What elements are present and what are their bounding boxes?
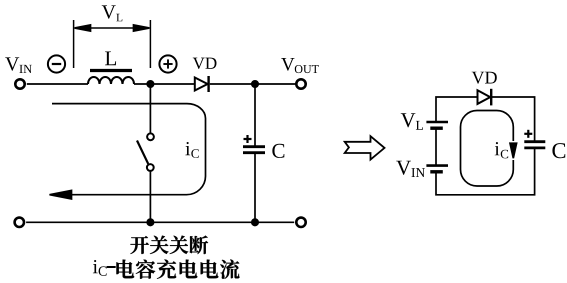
switch S xyxy=(137,133,154,171)
implies arrow xyxy=(345,136,385,159)
label L xyxy=(105,51,116,65)
dimension tick left xyxy=(73,20,75,68)
wire: node A down to switch xyxy=(149,84,151,133)
right circuit frame wire (top with diode gap) xyxy=(436,97,535,141)
capacitor C xyxy=(243,147,265,153)
node A (inductor-switch junction) xyxy=(147,81,153,87)
bottom rail wire xyxy=(26,221,294,223)
dimension arrow V_L (double-headed) xyxy=(75,25,150,31)
current loop i_C (right) xyxy=(461,111,517,187)
battery V_L xyxy=(426,122,448,128)
label + (right capacitor polarity) xyxy=(524,130,532,138)
wire: capacitor to bottom rail xyxy=(254,153,256,223)
wire top left: V_IN to inductor xyxy=(27,83,88,85)
node D (capacitor-bottom junction) xyxy=(252,219,258,225)
label VD (right) xyxy=(472,72,497,84)
dimension tick right xyxy=(149,20,151,68)
capacitor C (right) xyxy=(524,142,545,148)
diode VD (right) xyxy=(478,89,492,106)
current path arrow i_C (left loop) xyxy=(50,104,206,199)
terminal V_IN xyxy=(15,79,24,88)
terminal bottom left xyxy=(15,218,24,227)
label i_C (left) xyxy=(185,142,198,158)
battery V_IN xyxy=(426,166,448,172)
wire: switch to bottom rail xyxy=(149,171,151,222)
label C (right) xyxy=(552,143,565,158)
label V_IN xyxy=(5,57,32,73)
inductor L core bar xyxy=(90,69,132,72)
caption line 2: iC-电容充电电流 xyxy=(93,260,240,279)
label V_OUT xyxy=(281,58,319,73)
label + (capacitor polarity) xyxy=(244,135,252,143)
label VD xyxy=(193,58,217,69)
wire: diode to V_OUT xyxy=(210,83,296,85)
inductor L windings xyxy=(88,77,134,84)
right circuit frame wire (bottom) xyxy=(436,129,535,195)
label i_C (right) xyxy=(495,142,508,158)
polarity plus xyxy=(159,55,176,72)
caption line 1: 开关关断 xyxy=(130,236,208,254)
label C xyxy=(272,144,284,158)
node C (switch-bottom junction) xyxy=(147,219,153,225)
node B (diode-capacitor junction) xyxy=(252,81,258,87)
label V_L (right) xyxy=(401,113,423,129)
diode VD xyxy=(195,76,209,92)
polarity minus xyxy=(48,55,65,72)
label V_IN (right) xyxy=(396,161,425,177)
terminal V_OUT xyxy=(296,79,305,88)
terminal bottom right xyxy=(296,218,305,227)
wire: node B down to capacitor xyxy=(254,84,256,146)
wire: inductor to diode xyxy=(134,83,195,85)
label V_L xyxy=(102,5,123,21)
